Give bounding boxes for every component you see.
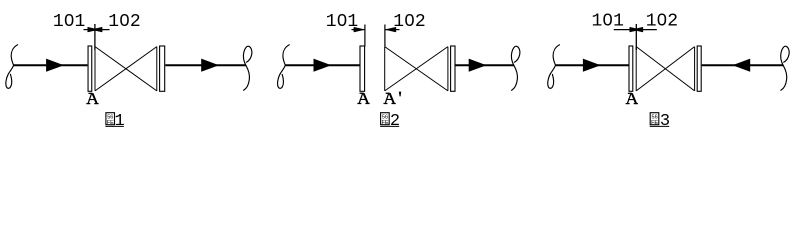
svg-text:1: 1 [114, 112, 124, 131]
svg-text:2: 2 [390, 112, 400, 131]
svg-text:3: 3 [660, 112, 670, 131]
